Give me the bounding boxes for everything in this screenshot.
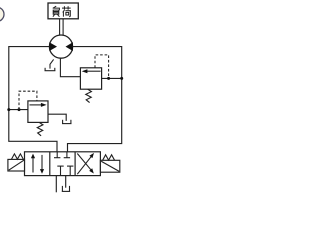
V2 spring [86, 89, 92, 102]
relief valve V1 body [28, 101, 48, 123]
motor left port arrowhead [49, 42, 57, 51]
V1 outlet line to tank [48, 114, 66, 121]
wire: motor right port to right bus [68, 47, 122, 152]
DV centre position: blocked port A [54, 152, 60, 158]
V2 flow arrow (points left) [86, 70, 101, 72]
junction dot [7, 108, 10, 111]
tank T2 [62, 120, 72, 124]
V1 pilot line (dashed) [19, 91, 37, 109]
relief valve V1 inlet from left bus [9, 109, 28, 111]
DV centre position: blocked port T [67, 166, 73, 176]
solenoid S2 (right) [100, 160, 119, 172]
circled-number badge arc (cropped at left edge) [0, 7, 4, 21]
T port line to tank [65, 176, 67, 188]
solenoid S1 (left) [8, 159, 25, 171]
motor case drain [50, 59, 54, 68]
junction dot [120, 77, 123, 80]
V2 outlet line to right bus [102, 77, 122, 79]
load box (負荷) [48, 3, 78, 19]
tank T3 [62, 186, 70, 192]
motor right port arrowhead [66, 42, 73, 51]
S2 spring zigzag [103, 155, 115, 161]
junction dot [107, 77, 110, 80]
drain tank T1 [45, 68, 56, 71]
hydraulic motor M1 circle [49, 35, 72, 58]
V1 flow arrow (points right) [30, 104, 43, 106]
DV left position: up arrow [31, 154, 35, 173]
DV centre position: blocked port P [57, 166, 63, 176]
DV left position: down arrow [40, 155, 44, 174]
wire: motor bottom port to right relief valve outlet [60, 58, 80, 77]
directional valve DV body [25, 152, 101, 176]
P port line (bottom) [55, 176, 57, 193]
V2 pilot line (dashed) [95, 55, 109, 79]
DV centre position: blocked port B [64, 152, 70, 158]
DV right position: crossed arrows [77, 154, 91, 175]
shaft (double line) load to motor [60, 19, 64, 35]
relief valve V2 body [80, 68, 101, 89]
kanji 負 [53, 6, 60, 16]
junction dot [18, 108, 21, 111]
wire: motor left port to left bus [9, 47, 57, 152]
S1 spring zigzag [11, 154, 23, 160]
V1 spring [37, 122, 43, 135]
kanji 荷 [62, 6, 71, 16]
